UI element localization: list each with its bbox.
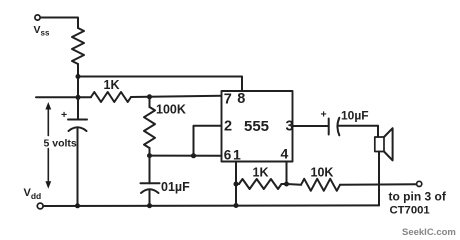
svg-text:to pin 3 of: to pin 3 of	[389, 190, 447, 204]
capacitor C1 .01uF	[149, 156, 151, 184]
junction bottom rail at pin1	[234, 203, 239, 208]
svg-text:Vdd: Vdd	[24, 187, 42, 201]
resistor R1 (Vss series, unlabeled)	[72, 28, 84, 64]
label 1K bottom	[253, 166, 269, 180]
label Vdd	[24, 187, 42, 201]
svg-text:01µF: 01µF	[161, 180, 190, 194]
terminal Vdd	[37, 203, 43, 209]
terminal Vss	[35, 15, 40, 20]
svg-text:4: 4	[281, 146, 289, 162]
svg-text:SeekIC.com: SeekIC.com	[402, 227, 456, 238]
svg-text:10K: 10K	[311, 165, 334, 179]
pin 4 label	[281, 146, 289, 162]
annotation arrow 5 volts	[47, 108, 49, 136]
pin 8 label	[237, 91, 245, 107]
wire node A to pin 8	[78, 77, 242, 92]
label Vss	[34, 24, 50, 38]
svg-text:8: 8	[237, 91, 245, 107]
wire node E to pin 2	[194, 126, 222, 156]
pin 1 label	[233, 147, 241, 163]
svg-text:7: 7	[224, 92, 232, 108]
svg-text:2: 2	[224, 119, 232, 135]
label to pin 3 of	[389, 190, 447, 204]
label 100K	[156, 103, 186, 117]
svg-text:1: 1	[233, 147, 241, 163]
capacitor C2 5 volt supply	[77, 97, 79, 119]
label 1K top	[104, 78, 120, 92]
svg-text:10µF: 10µF	[341, 109, 369, 123]
resistor 1K bottom	[236, 183, 239, 185]
label 5 volts	[44, 138, 77, 150]
svg-text:1K: 1K	[104, 78, 120, 92]
watermark SeekIC.com	[402, 227, 456, 238]
wire pin 1 drop	[235, 162, 237, 206]
pin 6 label	[224, 148, 232, 163]
junction pin1 / 1K	[234, 182, 239, 187]
wire pin 4 drop	[286, 162, 288, 185]
capacitor C3 10uF	[328, 119, 330, 135]
wire Vss to resistor	[40, 18, 78, 29]
svg-text:Vss: Vss	[34, 24, 50, 38]
wire bottom rail	[44, 204, 379, 207]
wire node D to pin 6	[150, 155, 222, 157]
node E junction (pin2 tap)	[191, 153, 196, 158]
pin 3 label	[286, 119, 294, 135]
wire pin 3	[293, 125, 329, 127]
label 555	[244, 118, 269, 135]
label 10K	[311, 165, 334, 179]
svg-text:1K: 1K	[253, 166, 269, 180]
label CT7001	[390, 205, 430, 217]
svg-text:555: 555	[244, 118, 269, 135]
wire node A down to node B	[77, 77, 79, 98]
svg-text:6: 6	[224, 148, 232, 163]
svg-text:+: +	[61, 109, 67, 121]
resistor 10K	[287, 183, 302, 186]
terminal output	[417, 181, 422, 186]
node C junction (1K/100K/pin7)	[147, 94, 152, 99]
svg-text:100K: 100K	[156, 103, 186, 117]
resistor 1K top	[78, 96, 91, 98]
label 10uF	[341, 109, 369, 123]
svg-text:+: +	[321, 109, 327, 121]
wire node C to pin 7	[150, 96, 222, 97]
node B junction	[76, 95, 81, 100]
op-amp U1 555 box	[222, 91, 293, 162]
pin 7 label	[224, 92, 232, 108]
label + of C2	[61, 109, 67, 121]
wire speaker to bottom rail	[378, 152, 380, 206]
label 01uF	[161, 180, 190, 194]
svg-text:5 volts: 5 volts	[44, 138, 77, 150]
resistor 100K	[149, 97, 151, 107]
junction bottom rail at C1	[147, 203, 152, 208]
pin 2 label	[224, 119, 232, 135]
junction pin4 / 1K / 10K	[284, 182, 289, 187]
speaker LS1	[377, 126, 379, 137]
wire output to terminal	[340, 183, 417, 186]
node A junction	[76, 74, 81, 79]
node D junction (100K/.01uF/pin6 wire)	[147, 153, 152, 158]
junction bottom rail at C2	[75, 203, 80, 208]
wire stub left of node B	[36, 96, 78, 98]
svg-text:CT7001: CT7001	[390, 205, 430, 217]
wire resistor to node A	[77, 64, 79, 77]
label + of C3	[321, 109, 327, 121]
